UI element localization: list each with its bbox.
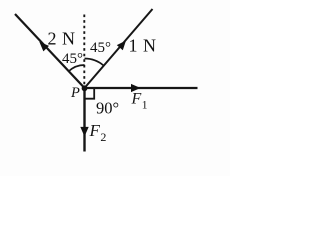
svg-text:90°: 90° (96, 99, 119, 118)
svg-text:F1: F1 (131, 91, 148, 112)
svg-text:P: P (70, 85, 80, 101)
svg-text:2 N: 2 N (48, 29, 76, 49)
svg-text:45°: 45° (90, 40, 111, 56)
svg-text:F2: F2 (89, 121, 107, 144)
svg-text:45°: 45° (62, 51, 83, 67)
svg-text:1 N: 1 N (129, 36, 157, 56)
